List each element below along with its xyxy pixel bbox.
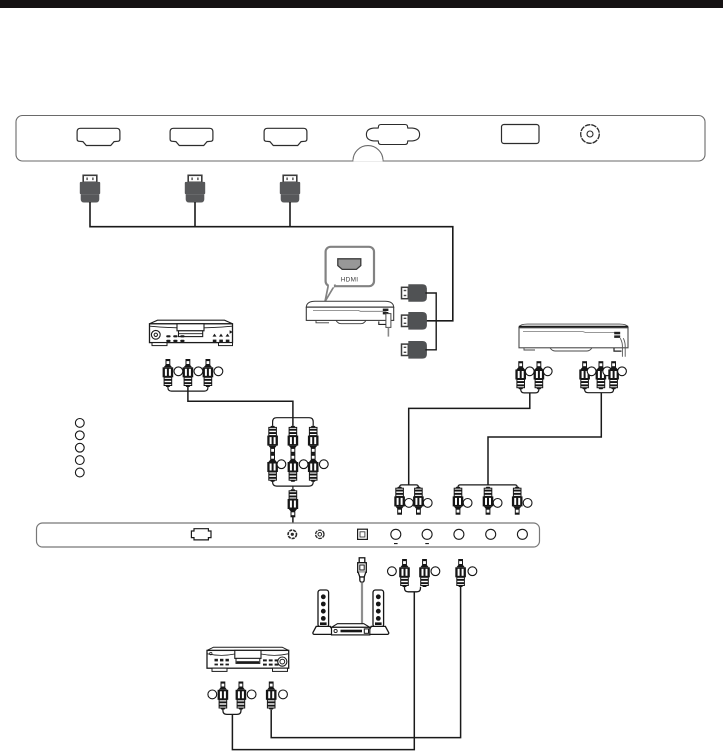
jack	[543, 367, 552, 376]
wire: pair merge bracket	[405, 587, 421, 592]
TV panel bottom notch	[353, 146, 383, 161]
component plug 2 (set-top out)	[596, 362, 607, 390]
RCA input 4 (soundbar)	[486, 529, 496, 539]
coax plug (amplifier)	[266, 682, 277, 710]
page top black bar	[0, 0, 723, 8]
USB port (TV)	[502, 125, 540, 144]
tick marks under inputs	[394, 543, 429, 545]
audio plug R (set-top out)	[534, 362, 545, 390]
jack	[279, 690, 288, 699]
jack	[277, 460, 286, 469]
wire: soundbar pair to amplifier pair	[232, 592, 414, 750]
wire: plug tip stub	[292, 517, 294, 523]
coax plug (soundbar out)	[455, 559, 466, 587]
component plug down 1 (into soundbar)	[453, 487, 464, 515]
component plug down 3 (into soundbar)	[512, 487, 523, 515]
wire: component triple merge	[585, 389, 614, 393]
component single plug to soundbar	[288, 489, 299, 517]
jack	[405, 499, 414, 508]
wire: amplifier pair merge bracket	[223, 709, 241, 714]
HDMI cable plug 3 (into TV)	[280, 175, 300, 202]
RCA input 2 (soundbar)	[422, 529, 432, 539]
soundbar back panel	[37, 523, 540, 547]
jack	[463, 499, 472, 508]
audio plug L (soundbar out)	[399, 559, 410, 587]
jack	[431, 567, 440, 576]
antenna jack (TV)	[581, 125, 600, 144]
jack	[587, 367, 596, 376]
audio plug R (amplifier)	[236, 682, 247, 710]
jack	[523, 499, 532, 508]
wire: HDMI bus from plugs to splitter	[90, 202, 453, 321]
wire: component adapter bottom bracket	[273, 481, 314, 489]
jack	[493, 499, 502, 508]
HDMI splitter plug bottom	[402, 341, 427, 359]
HDMI callout box	[326, 247, 374, 286]
jack	[247, 690, 256, 699]
AV plug yellow (DVD out)	[203, 359, 214, 387]
jack	[388, 567, 397, 576]
wire: soundbar L/R pair bracket	[400, 485, 419, 488]
DVD recorder (bottom, front view)	[207, 647, 289, 671]
wire: audio pair to soundbar L/R	[409, 393, 530, 485]
HDMI port 3 (TV)	[264, 128, 307, 145]
audio plug R (soundbar out)	[419, 559, 430, 587]
component plug up 2	[288, 454, 299, 482]
home theater left speaker	[313, 590, 334, 634]
component plug 3 (set-top out)	[608, 362, 619, 390]
callout pointer	[325, 285, 335, 301]
jack	[214, 367, 223, 376]
jack	[423, 499, 432, 508]
HDMI cable plug 1 (into TV)	[80, 175, 100, 202]
wire: splitter bracket	[425, 293, 436, 350]
component plug up 3	[308, 454, 319, 482]
VGA port (TV)	[366, 125, 419, 145]
jack	[468, 567, 477, 576]
RCA input 3 (soundbar)	[454, 529, 464, 539]
HDMI splitter plug middle	[402, 312, 427, 330]
wire: DVD AV cable merge	[168, 387, 208, 391]
audio plug down R (into soundbar)	[413, 487, 424, 515]
component plug up 1	[267, 454, 278, 482]
wire: optical cable	[361, 582, 363, 624]
audio plug L (amplifier)	[218, 682, 229, 710]
DVD player (slim, under callout)	[306, 301, 393, 336]
wire: plug2 drop	[194, 202, 196, 227]
HDMI cable plug 2 (into TV)	[185, 175, 205, 202]
jack	[208, 690, 217, 699]
wire: DVD AV to component adapter	[188, 387, 293, 426]
svg-text:HDMI: HDMI	[341, 276, 359, 283]
RCA input 1 (soundbar)	[391, 529, 401, 539]
jack	[525, 367, 534, 376]
home theater right speaker	[368, 590, 389, 634]
optical cable plug	[358, 558, 367, 582]
wire: soundbar coax to amplifier	[271, 587, 460, 738]
AV port (soundbar)	[191, 529, 211, 540]
DVD player (left, front view)	[150, 320, 233, 345]
home theater center unit	[332, 624, 370, 635]
wire: audio pair merge	[521, 389, 539, 393]
audio plug L (set-top out)	[515, 362, 526, 390]
HDMI port 1 (TV)	[77, 128, 120, 145]
AV plug red (DVD out)	[163, 359, 174, 387]
component plug down 2 (into soundbar)	[483, 487, 494, 515]
jack	[174, 367, 183, 376]
set-top box (right)	[519, 324, 628, 357]
audio plug down L (into soundbar)	[394, 487, 405, 515]
wire: plug3 drop	[289, 202, 291, 227]
component plug down 2	[288, 426, 299, 454]
TV back panel outline	[16, 116, 705, 162]
jack	[618, 367, 627, 376]
RCA input 5 (soundbar)	[517, 529, 527, 539]
component plug 1 (set-top out)	[579, 362, 590, 390]
jack	[299, 460, 308, 469]
wire: component to soundbar video in	[488, 393, 601, 485]
component plug down 3	[308, 426, 319, 454]
jack	[319, 460, 328, 469]
component plug down 1	[267, 426, 278, 454]
audio jack 2 (soundbar)	[316, 530, 324, 538]
optical port (soundbar)	[358, 529, 368, 539]
jack	[194, 367, 203, 376]
wire: component adapter top bracket	[273, 418, 314, 426]
HDMI port 2 (TV)	[170, 128, 213, 145]
wire: soundbar component bracket	[458, 485, 517, 488]
audio jack 1 (soundbar)	[288, 530, 296, 538]
AV plug white (DVD out)	[183, 359, 194, 387]
input select dots column	[75, 419, 84, 477]
jack	[603, 367, 612, 376]
HDMI splitter plug top	[402, 284, 427, 302]
